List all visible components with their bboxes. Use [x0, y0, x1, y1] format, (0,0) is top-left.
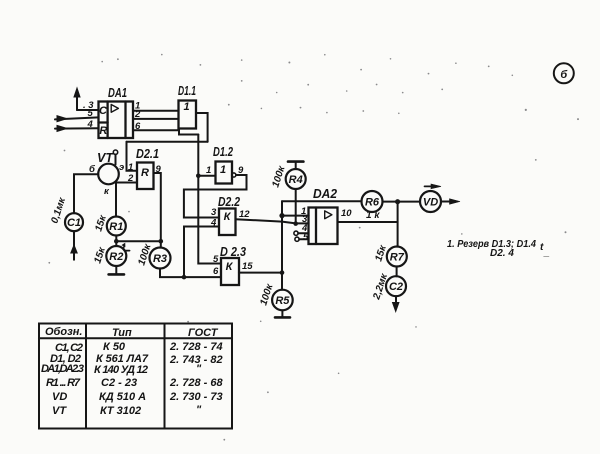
D2.1 R label: [141, 167, 149, 179]
table row2 col1: [50, 353, 81, 365]
svg-text:10: 10: [341, 208, 352, 219]
wire R2 to ground: [115, 266, 117, 274]
svg-text:КД 510 А: КД 510 А: [99, 391, 146, 403]
pin label 2: [134, 109, 141, 120]
svg-text:R1 ... R7: R1 ... R7: [46, 377, 81, 389]
svg-text:С2 - 23: С2 - 23: [101, 377, 137, 389]
wire DA2 pin10 output: [338, 221, 398, 223]
pin label 3 (D2.2): [211, 207, 217, 218]
svg-text:VD: VD: [52, 391, 67, 403]
nand D2.3: [221, 258, 239, 285]
junction DA2 pin1: [279, 213, 284, 218]
note plus mark: [540, 242, 550, 258]
table header ГОСТ: [188, 327, 219, 339]
table row2 col3: [169, 354, 223, 366]
table row4 col3: [169, 377, 223, 389]
svg-text:К 140 УД 12: К 140 УД 12: [94, 364, 148, 376]
VT base wire from C1: [74, 174, 98, 213]
R3 value 100к: [136, 242, 153, 267]
resistor R3 label: [153, 253, 167, 265]
svg-text:": ": [196, 363, 202, 375]
table row3 col2: [94, 364, 148, 376]
wire branch up to D2.2 pin4: [184, 227, 219, 278]
svg-text:D1.2: D1.2: [213, 145, 233, 159]
D1.1 function label 1: [183, 101, 189, 113]
diode VD: [420, 191, 441, 212]
R2 trimmer arrow: [122, 243, 129, 250]
D1.2 output bubble: [232, 173, 236, 177]
junction R4 on pin3 wire: [293, 221, 298, 226]
svg-text:6: 6: [135, 121, 141, 132]
svg-text:1: 1: [206, 165, 211, 176]
svg-text:2. 728 - 68: 2. 728 - 68: [169, 377, 223, 389]
wire DA2 pin1: [282, 215, 309, 217]
wire D2.2 pin12 to DA2 pin3: [236, 219, 309, 223]
svg-text:К: К: [224, 211, 232, 223]
ground under R5: [275, 310, 290, 317]
svg-text:R1: R1: [109, 221, 123, 233]
table row4 col2: [101, 377, 137, 389]
pin label 1 (DA2): [301, 206, 306, 217]
R5 value 100к: [258, 282, 275, 307]
svg-text:15к: 15к: [92, 245, 108, 265]
junction on R3 vertical: [159, 239, 164, 244]
svg-text:VD: VD: [423, 197, 438, 209]
table frame: [39, 324, 232, 429]
label D1.1: [178, 84, 196, 98]
svg-text:ГОСТ: ГОСТ: [188, 327, 219, 339]
table header Тип: [112, 327, 132, 339]
svg-text:К: К: [226, 261, 234, 273]
R2 value 15к: [92, 245, 108, 265]
logic gate D1.1: [179, 101, 197, 129]
svg-text:к: к: [104, 186, 110, 197]
pin label 12: [239, 209, 250, 220]
svg-text:15: 15: [242, 261, 253, 272]
resistor R1 label: [109, 221, 123, 233]
capacitor C2 label: [389, 281, 403, 293]
comparator DA1: [99, 102, 134, 139]
svg-text:9: 9: [156, 164, 162, 175]
wire D2.1 pin9 down to R3: [154, 173, 161, 248]
wire D1.2 output to D2.2 pin3: [184, 175, 247, 218]
wire R6 to VD: [383, 201, 421, 203]
pin label 6 (D2.3): [213, 266, 219, 277]
svg-text:R5: R5: [275, 295, 290, 307]
capacitor C1 label: [67, 217, 81, 229]
pin label 3 (DA2): [302, 214, 308, 225]
wire R1 to junction: [115, 236, 117, 242]
svg-text:Обозн.: Обозн.: [45, 326, 82, 338]
wire D1.1 output down: [196, 113, 208, 142]
diode VD label: [423, 197, 438, 209]
svg-text:R7: R7: [390, 252, 405, 264]
resistor R7: [387, 247, 407, 267]
DA2 nc pin circle A: [294, 231, 309, 235]
wire D2.3 pin15 output: [239, 272, 282, 274]
svg-text:Тип: Тип: [112, 327, 132, 339]
sheet number 6: [560, 69, 568, 81]
svg-text:VT: VT: [97, 151, 114, 165]
wire D1.2 pin1: [198, 175, 215, 177]
C1 value 0,1мк: [49, 196, 68, 225]
svg-text:C: C: [99, 105, 108, 117]
RS latch D2.1: [137, 163, 154, 190]
DA1 C input label: [99, 105, 108, 117]
label DA1: [108, 86, 127, 100]
resistor R5 label: [275, 295, 290, 307]
wire R4 down to pin3 net: [295, 189, 297, 224]
D2.3 K label: [226, 261, 234, 273]
pin label 5 (DA2): [303, 232, 309, 243]
svg-text:D 2.3: D 2.3: [220, 245, 246, 259]
label D1.2: [213, 145, 233, 159]
wire net bus y142: [127, 141, 208, 143]
table row1 col2: [103, 341, 126, 353]
junction pin6 net / D2.2 pin4 branch: [182, 275, 187, 280]
nand D2.2: [219, 209, 236, 236]
svg-text:DA1: DA1: [108, 86, 127, 100]
svg-text:1: 1: [128, 162, 133, 173]
wire R2 junction to R2: [115, 241, 117, 246]
svg-text:D2.1: D2.1: [136, 147, 159, 161]
D1.2 function label 1: [220, 164, 226, 176]
VT emitter label: [119, 162, 124, 173]
svg-text:D2. 4: D2. 4: [490, 248, 514, 259]
inverter D1.2: [216, 162, 233, 184]
svg-text:К 50: К 50: [103, 341, 126, 353]
wire DA1 pin6 to mid vertical: [133, 130, 198, 134]
pin label 9 (D1.2): [238, 165, 244, 176]
svg-text:2: 2: [127, 173, 134, 184]
D2.2 K label: [224, 211, 232, 223]
pin label 9 (D2.1): [156, 164, 162, 175]
pin label 1: [135, 101, 140, 112]
wire to D2.1 pin1: [127, 142, 138, 171]
svg-text:R2: R2: [109, 251, 123, 263]
resistor R6 label: [365, 197, 380, 209]
pin label 6: [135, 121, 141, 132]
pin label 10: [341, 208, 352, 219]
direction arrow above VD: [425, 184, 442, 189]
table row1 col3: [169, 341, 223, 353]
wire R7 vertical: [397, 202, 399, 247]
pin label 2 (D2.1): [127, 173, 134, 184]
pin label 4 (D2.2): [210, 218, 217, 229]
capacitor C2: [386, 276, 406, 296]
pin label 4: [87, 119, 94, 130]
junction mid vertical / D1.2 pin1: [196, 174, 201, 179]
C1 lower lead with up arrow: [71, 231, 77, 260]
junction pin15 / R5 vertical: [280, 270, 285, 275]
resistor R5: [272, 290, 293, 311]
scan speckles: [48, 54, 579, 441]
pin label 1 (D2.1): [128, 162, 133, 173]
svg-text:DA1,DA2.3: DA1,DA2.3: [41, 363, 84, 375]
pin label 3: [83, 100, 94, 111]
resistor R4 label: [289, 174, 303, 186]
table row6 col3: [196, 404, 202, 416]
table row6 col1: [52, 405, 67, 417]
wire R3 bottom to D2.3 pin6: [160, 269, 221, 278]
table row5 col2: [99, 391, 146, 403]
svg-text:4: 4: [87, 119, 94, 130]
input wire pin5: [55, 116, 99, 122]
sheet badge circle 6: [554, 63, 574, 83]
svg-text:": ": [196, 404, 202, 416]
svg-text:5: 5: [303, 232, 309, 243]
power arrow up (top-left supply): [74, 88, 80, 110]
vertical net R5-DA2pin1-R6: [281, 201, 283, 290]
wire VT collector to D2.1 pin2: [116, 182, 137, 184]
svg-text:6: 6: [213, 266, 219, 277]
wire pin3 to DA1.C: [77, 109, 99, 111]
R4 top terminal bar: [288, 162, 303, 169]
resistor R7 label: [390, 252, 405, 264]
svg-text:R: R: [141, 167, 149, 179]
svg-text:1: 1: [220, 164, 226, 176]
resistor R1: [107, 217, 126, 236]
output arrow right of VD: [441, 199, 460, 204]
svg-text:КТ 3102: КТ 3102: [100, 405, 141, 417]
pin label 4 (DA2): [301, 223, 308, 234]
transistor VT: [98, 164, 119, 185]
svg-text:DA2: DA2: [313, 187, 337, 201]
svg-text:1: 1: [183, 101, 189, 113]
label VT: [97, 151, 114, 165]
label DA2: [313, 187, 337, 201]
pin label 5 (D2.3): [213, 254, 219, 265]
table row6 col2: [100, 405, 141, 417]
note line 2: [490, 248, 514, 259]
svg-text:C1: C1: [67, 217, 81, 229]
svg-text:э: э: [119, 162, 124, 173]
wire up to R6: [282, 200, 362, 202]
table row3 col3: [196, 363, 202, 375]
svg-text:5: 5: [213, 254, 219, 265]
svg-text:R3: R3: [153, 253, 167, 265]
VT emitter lead with terminal: [113, 150, 117, 165]
junction R6/VD/R7: [395, 199, 400, 204]
resistor R2 label: [109, 251, 123, 263]
svg-text:1 к: 1 к: [366, 210, 380, 221]
svg-text:C2: C2: [389, 281, 403, 293]
resistor R6: [362, 191, 383, 212]
input wire pin4: [55, 125, 99, 131]
R7 value 15к: [373, 243, 389, 263]
pin label 5: [88, 108, 94, 119]
svg-text:R6: R6: [365, 197, 380, 209]
op-amp DA2: [309, 208, 338, 245]
svg-text:D1.1: D1.1: [178, 84, 196, 98]
VT base label: [89, 164, 96, 175]
svg-text:3: 3: [211, 207, 217, 218]
pin label 15: [242, 261, 253, 272]
svg-text:2. 728 - 74: 2. 728 - 74: [169, 341, 223, 353]
table header Обозн: [45, 326, 82, 338]
svg-text:2: 2: [134, 109, 141, 120]
R1 value 15к: [93, 213, 109, 233]
capacitor C1: [65, 213, 83, 231]
table row1 col1: [55, 342, 83, 354]
svg-text:VT: VT: [52, 405, 67, 417]
VT collector label: [104, 186, 110, 197]
svg-text:2,2мк: 2,2мк: [371, 272, 390, 302]
wire R7 to C2: [396, 267, 398, 277]
label D2.3: [220, 245, 246, 259]
resistor R3: [150, 248, 171, 269]
svg-text:5: 5: [88, 108, 94, 119]
svg-text:б: б: [560, 69, 568, 81]
VT collector wire down to R1: [115, 183, 117, 217]
table row5 col1: [52, 391, 67, 403]
R4 value 100к: [270, 164, 287, 189]
junction R1/R2/R3 net: [114, 239, 119, 244]
table row2 col2: [96, 353, 149, 365]
R6 value 1к: [366, 210, 380, 221]
wire mid vertical to D2.3 pin5: [198, 135, 221, 264]
label D2.1: [136, 147, 159, 161]
svg-text:12: 12: [239, 209, 250, 220]
wire junction to R3 branch: [116, 240, 161, 242]
C2 lower lead with down arrow: [393, 296, 399, 311]
wire DA1 pin1 to D1.1: [133, 110, 179, 112]
C2 value 2,2мк: [371, 272, 390, 302]
resistor R2: [106, 246, 126, 266]
table row4 col1: [46, 377, 81, 389]
svg-text:D2.2: D2.2: [218, 195, 240, 209]
svg-text:2. 730 - 73: 2. 730 - 73: [169, 391, 223, 403]
note line 1: [447, 239, 536, 250]
svg-text:R: R: [99, 125, 107, 137]
svg-text:9: 9: [238, 165, 244, 176]
table row3 col1: [41, 363, 84, 375]
wire DA1 pin2 to D1.1: [133, 118, 179, 120]
label D2.2: [218, 195, 240, 209]
table row5 col3: [169, 391, 223, 403]
DA1 R input label: [99, 125, 107, 137]
resistor R4: [286, 169, 306, 189]
DA2 nc pin circle B: [295, 237, 309, 241]
svg-text:4: 4: [210, 218, 217, 229]
pin label 1 (D1.2): [206, 165, 211, 176]
svg-text:_: _: [543, 247, 550, 258]
ground under R2: [109, 273, 124, 276]
svg-text:R4: R4: [289, 174, 303, 186]
